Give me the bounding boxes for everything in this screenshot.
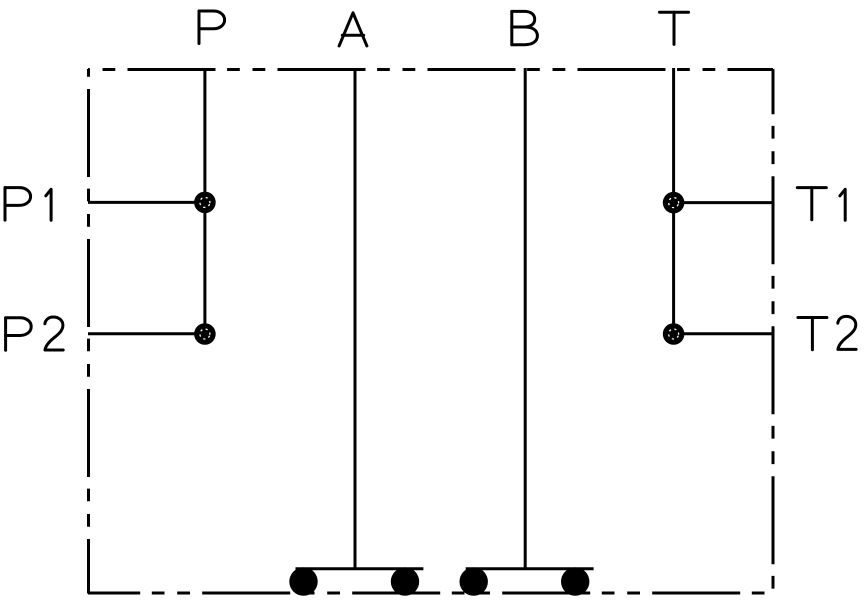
label T1 <box>797 188 845 221</box>
wire P2 horizontal <box>88 332 205 335</box>
port T1 <box>663 192 685 214</box>
wire B vertical <box>524 68 527 569</box>
label P1 <box>5 188 51 221</box>
port P1 <box>194 192 216 214</box>
label P2 <box>6 317 64 350</box>
wire A vertical <box>354 68 357 569</box>
wire T2 horizontal <box>674 332 773 335</box>
label A <box>339 13 367 46</box>
wire P1 horizontal <box>88 201 205 204</box>
enclosure border bottom <box>88 592 773 595</box>
label B <box>512 11 538 44</box>
port P2 <box>194 323 216 345</box>
label T2 <box>798 316 856 349</box>
cavity foot B <box>460 567 594 595</box>
port T2 <box>663 323 685 345</box>
cavity foot A <box>289 567 423 595</box>
enclosure border left <box>87 69 90 594</box>
label T <box>660 12 689 44</box>
wire T vertical <box>672 68 675 334</box>
wire P vertical <box>203 68 206 334</box>
wire T1 horizontal <box>674 201 773 204</box>
enclosure border right <box>772 69 775 594</box>
enclosure border top <box>88 68 773 71</box>
label P <box>199 11 225 44</box>
